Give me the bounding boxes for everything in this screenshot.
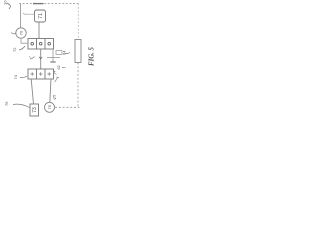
- node label 64 lead line: [62, 50, 71, 55]
- svg-text:10: 10: [3, 0, 8, 5]
- svg-text:71: 71: [38, 13, 44, 19]
- valve V1 position symbols: [31, 42, 51, 45]
- svg-text:73: 73: [32, 107, 38, 113]
- wire: valve row2 right output down to motor M1: [50, 79, 51, 102]
- heat exchanger HX tall rectangle: [75, 40, 81, 63]
- wire: vertical supply line down to pump P1: [20, 4, 22, 28]
- valve V1 (three-position valve row): [28, 39, 54, 50]
- svg-text:64: 64: [62, 50, 67, 55]
- wire: valve row1 to valve row2 with check valve arrow: [40, 49, 42, 69]
- wire: valve row2 left output down to box 73: [31, 79, 33, 104]
- svg-text:76: 76: [4, 101, 9, 106]
- wire: filter box to valve row 1: [38, 22, 40, 38]
- node label 74 (left of valve row 2): [13, 74, 27, 79]
- wire: dashed shaft from motor to vertical shaft line: [55, 106, 80, 108]
- node label 10 (top-left reference numeral with curved lead line): [3, 0, 11, 9]
- node label 76 lead to box 73: [4, 101, 30, 108]
- node label 75 above motor: [53, 95, 57, 100]
- wire: dashed shaft line below heat exchanger: [77, 63, 79, 108]
- node label 71 lead line to filter box: [23, 13, 34, 14]
- svg-text:75: 75: [53, 95, 57, 99]
- valve V2 (three-position valve row 2): [28, 69, 54, 79]
- motor M1 (circle with rotated M glyph): [45, 102, 55, 112]
- node label 66 (below spring, curved lead): [55, 77, 60, 82]
- svg-text:72: 72: [12, 47, 17, 52]
- node label 63 (left of center line between rows): [29, 57, 35, 60]
- ground tank T1 bar: [50, 61, 55, 63]
- spring on valve V2 right side: [54, 71, 57, 75]
- check valve arrow on center line: [39, 57, 42, 59]
- filter FL box (rounded rectangle with rotated 71 glyph): [35, 10, 46, 22]
- restrictor R1 small open rectangle: [56, 51, 62, 55]
- box 73 (bottom rectangle with rotated 73 glyph): [30, 104, 39, 116]
- svg-text:70: 70: [18, 30, 23, 35]
- node label 62 near heat exchanger bottom: [57, 65, 66, 69]
- svg-text:62: 62: [57, 65, 61, 69]
- wire: dash-dot boundary line along top: [19, 3, 79, 5]
- valve V2 position symbols (crosses): [30, 72, 51, 76]
- svg-text:75: 75: [47, 104, 52, 109]
- svg-text:74: 74: [13, 74, 18, 79]
- wire: right branch from valve row1 down to tank: [52, 49, 54, 62]
- wire: darker segment of top line above filter box: [33, 3, 44, 5]
- pump P1 (circle with rotated M glyph): [16, 28, 26, 38]
- wire: pump outlet to valve row 1 left port: [21, 38, 28, 43]
- wire: dashed shaft line top right, down to heat exchanger: [77, 4, 79, 40]
- node label 77 (left of pump circle): [11, 33, 16, 34]
- svg-text:FIG. 5: FIG. 5: [88, 46, 95, 65]
- wire: cross branch to restrictor: [47, 57, 60, 59]
- node label 72 (below pump, curved lead): [12, 46, 25, 52]
